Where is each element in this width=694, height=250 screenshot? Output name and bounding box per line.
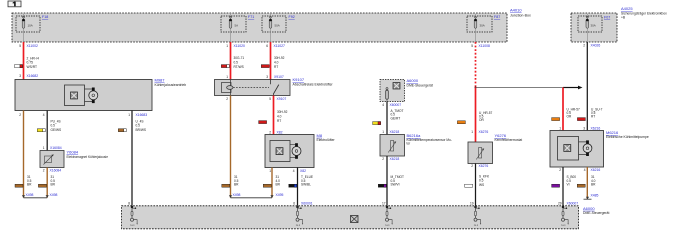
svg-text:Kennfeldthermostat: Kennfeldthermostat [495, 138, 523, 142]
svg-text:50A: 50A [275, 24, 280, 28]
component M987 Kuehlerjalousieantrieb [15, 80, 152, 111]
svg-text:X60007: X60007 [567, 202, 579, 206]
svg-text:2: 2 [559, 168, 561, 172]
svg-text:X82: X82 [277, 130, 283, 134]
svg-text:RT: RT [591, 114, 595, 118]
svg-text:X6218: X6218 [390, 157, 400, 161]
svg-text:5: 5 [269, 97, 271, 101]
svg-text:6: 6 [266, 44, 268, 48]
wire F18 to M987 red [23, 42, 25, 80]
ground bar X498 [24, 197, 48, 199]
svg-text:X6216: X6216 [591, 127, 601, 131]
fuse F92 [262, 16, 286, 32]
wire M6216 pin2 to DME [562, 167, 564, 206]
svg-text:29: 29 [558, 202, 562, 206]
wire B6218 to DME [386, 156, 388, 206]
svg-text:F92: F92 [289, 15, 295, 19]
svg-text:1: 1 [43, 146, 45, 150]
component Y6084 Elektromagnet Kuehlerjalousie [40, 151, 64, 168]
sensor B6218 Kuehlmitteltemperatursensor [380, 135, 405, 157]
ECU A6000 small box [380, 80, 405, 102]
svg-text:30H-92: 30H-92 [277, 110, 288, 114]
svg-text:X11020: X11020 [234, 44, 246, 48]
node branch wire [475, 87, 477, 89]
svg-text:1: 1 [559, 127, 561, 131]
svg-text:1: 1 [128, 113, 130, 117]
svg-text:X9107: X9107 [277, 97, 287, 101]
wire node to M6216 red [562, 88, 564, 131]
relay K9107 Abschaltrelais Elektroluefter [215, 80, 291, 96]
wire M987 pin4 to Y6084 [46, 111, 48, 151]
arrow to M6216 [563, 87, 579, 89]
svg-text:30G-71: 30G-71 [234, 56, 245, 60]
wire M987 pin1 to DME [131, 111, 133, 207]
svg-text:Sicherungsträger Elektronikbox: Sicherungsträger Elektronikbox [621, 12, 667, 16]
svg-text:SW/VI: SW/VI [391, 182, 400, 186]
svg-text:RT/WS: RT/WS [234, 65, 244, 69]
svg-text:A6000: A6000 [407, 78, 419, 83]
svg-text:X6216: X6216 [591, 168, 601, 172]
svg-text:K9107: K9107 [293, 77, 305, 82]
svg-text:F87: F87 [494, 15, 500, 19]
svg-text:2: 2 [269, 130, 271, 134]
svg-text:3: 3 [583, 127, 585, 131]
ECU bus symbol [351, 216, 359, 223]
svg-text:GE/RT: GE/RT [391, 117, 401, 121]
wire K9107 pin5 to M8 red [273, 96, 275, 135]
svg-text:BR: BR [276, 182, 281, 186]
svg-text:X498: X498 [233, 193, 241, 197]
ground bar X495 [231, 197, 273, 199]
svg-text:4: 4 [293, 169, 295, 173]
svg-text:1: 1 [382, 130, 384, 134]
svg-text:1: 1 [269, 169, 271, 173]
ECU pin glyph 8 [131, 206, 133, 208]
ground X485 [584, 198, 592, 200]
svg-text:A4010: A4010 [510, 8, 522, 13]
svg-text:SW/BL: SW/BL [301, 182, 311, 186]
wire A6000 to B6218 [386, 102, 388, 135]
svg-text:X6276: X6276 [479, 130, 489, 134]
svg-text:X60007: X60007 [390, 103, 402, 107]
svg-text:X11002: X11002 [27, 44, 39, 48]
svg-text:30A: 30A [591, 24, 596, 28]
fuse carrier A4025 [571, 13, 617, 42]
wire F87 red dashed [475, 42, 477, 88]
svg-text:X16682: X16682 [27, 74, 39, 78]
svg-text:Kühlerjalousieantrieb: Kühlerjalousieantrieb [155, 83, 187, 87]
svg-text:X11008: X11008 [479, 44, 491, 48]
svg-text:BR: BR [234, 182, 239, 186]
svg-text:X16683: X16683 [136, 113, 148, 117]
svg-text:X11027: X11027 [274, 44, 286, 48]
ECU pin glyph 19 [474, 206, 476, 208]
svg-text:0.5: 0.5 [234, 60, 239, 64]
svg-text:X6218: X6218 [390, 130, 400, 134]
wire F07 to M6216 black [586, 42, 588, 131]
svg-text:5: 5 [19, 44, 21, 48]
svg-text:2: 2 [43, 168, 45, 172]
svg-text:F71: F71 [248, 15, 254, 19]
wire M987 pin2 brown ground [23, 111, 25, 198]
svg-text:DME-Steuergerät: DME-Steuergerät [407, 83, 433, 87]
svg-text:X6276: X6276 [479, 164, 489, 168]
ECU A6000 bottom box [122, 206, 579, 229]
svg-text:4.0: 4.0 [274, 60, 279, 64]
svg-text:M8: M8 [317, 133, 323, 138]
svg-text:2: 2 [382, 157, 384, 161]
svg-text:X4026: X4026 [591, 43, 601, 47]
svg-text:A4025: A4025 [621, 6, 633, 11]
svg-text:4: 4 [43, 113, 45, 117]
svg-text:OR: OR [567, 114, 572, 118]
wire K9107 pin2 brown ground [230, 96, 232, 198]
wire F71 to K9107 red [230, 42, 232, 80]
svg-text:X495: X495 [276, 193, 284, 197]
svg-text:Elektromagnet Kühlerjalousie: Elektromagnet Kühlerjalousie [67, 155, 109, 159]
wire M8 pin4 to DME [297, 168, 299, 207]
svg-text:5: 5 [471, 44, 473, 48]
svg-text:VI: VI [567, 182, 570, 186]
svg-text:Abschaltrelais Elektrolüfter: Abschaltrelais Elektrolüfter [293, 82, 334, 86]
ECU pin glyph 29 [562, 206, 564, 208]
svg-text:6: 6 [293, 202, 295, 206]
wire M8 pin1 brown ground [271, 168, 273, 198]
svg-text:DME-Steuergerät: DME-Steuergerät [583, 211, 609, 215]
svg-text:2: 2 [583, 43, 585, 47]
svg-text:Elektrolüfter: Elektrolüfter [317, 138, 336, 142]
svg-text:X498: X498 [50, 193, 58, 197]
fuse F07 [578, 16, 602, 32]
svg-text:RT: RT [274, 65, 278, 69]
wire node to Y6276 red [475, 88, 477, 143]
svg-text:2: 2 [226, 97, 228, 101]
svg-text:RT: RT [277, 119, 281, 123]
svg-text:F07: F07 [604, 16, 610, 20]
svg-text:X16084: X16084 [50, 146, 62, 150]
wire Y6276 to DME [475, 164, 477, 207]
fuse F87 [467, 16, 492, 32]
ECU pin glyph 6 [296, 206, 298, 208]
svg-text:X82: X82 [300, 169, 306, 173]
svg-text:WS: WS [479, 183, 484, 187]
wire M6216 pin4 brown ground [586, 167, 588, 199]
svg-text:X16084: X16084 [50, 168, 62, 172]
svg-text:2: 2 [19, 113, 21, 117]
wire Y6084 pin2 brown ground [46, 168, 48, 198]
svg-text:M987: M987 [155, 78, 166, 83]
svg-text:Junction-Box: Junction-Box [510, 14, 531, 18]
svg-text:BR: BR [51, 182, 56, 186]
svg-text:1: 1 [471, 130, 473, 134]
svg-text:30H-92: 30H-92 [274, 56, 285, 60]
svg-text:4: 4 [382, 103, 384, 107]
svg-text:8: 8 [128, 202, 130, 206]
fuse F71 [221, 16, 246, 32]
svg-text:2: 2 [471, 164, 473, 168]
svg-text:X498: X498 [26, 193, 34, 197]
svg-text:4: 4 [584, 168, 586, 172]
svg-text:4.0: 4.0 [277, 115, 282, 119]
svg-text:GE/WS: GE/WS [51, 128, 62, 132]
svg-text:BR/WS: BR/WS [136, 128, 146, 132]
svg-text:1: 1 [226, 75, 228, 79]
svg-text:F18: F18 [42, 15, 48, 19]
fan M8 Elektroluefter [265, 135, 314, 168]
svg-text:3: 3 [266, 75, 268, 79]
page icon [8, 1, 21, 7]
svg-text:1: 1 [226, 44, 228, 48]
fuse F18 [16, 16, 40, 32]
svg-text:BR: BR [591, 182, 596, 186]
svg-text:10A: 10A [28, 24, 33, 28]
svg-text:X9107: X9107 [274, 75, 284, 79]
svg-text:Elektrische Kühlmittelpumpe: Elektrische Kühlmittelpumpe [606, 135, 649, 139]
ECU pin glyph 17 [386, 206, 388, 208]
svg-text:30A: 30A [480, 24, 485, 28]
svg-text:BR: BR [27, 182, 32, 186]
svg-text:X485: X485 [591, 193, 599, 197]
svg-text:WS/RT: WS/RT [27, 65, 38, 69]
pump M6216 Elektrische Kuehlmittelpumpe [550, 131, 604, 168]
svg-text:X60001: X60001 [301, 202, 313, 206]
wire F92 to K9107 red [270, 42, 272, 80]
junction box A4010 [12, 13, 507, 42]
thermostat Y6276 Kennfeldthermostat [468, 142, 493, 164]
svg-text:3: 3 [19, 74, 21, 78]
svg-text:5A: 5A [235, 24, 239, 28]
svg-text:Kühlmitteltemperatursensor Mo-: Kühlmitteltemperatursensor Mo- [407, 138, 452, 142]
svg-text:19: 19 [470, 202, 474, 206]
svg-text:17: 17 [382, 202, 386, 206]
svg-text:OR: OR [479, 118, 484, 122]
